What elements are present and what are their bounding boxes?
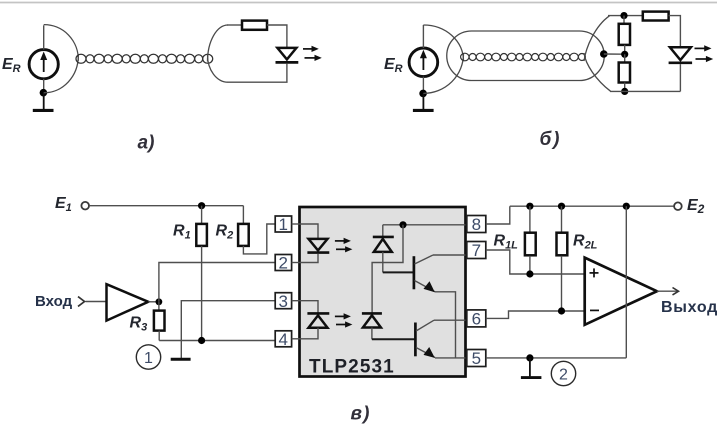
node R1L bottom dot (526, 270, 533, 277)
pin 1 (275, 215, 299, 234)
LED2 emission arrows (335, 313, 353, 327)
ground (b) (413, 93, 434, 110)
wire pin1 to LED1 (300, 224, 319, 239)
resistor R2L (557, 206, 568, 311)
pin 5 (467, 349, 486, 368)
op-amp U3 (585, 258, 657, 325)
wire to pin2 (159, 263, 275, 302)
svg-text:TLP2531: TLP2531 (309, 357, 395, 378)
wire D2 to Q2 base (372, 338, 416, 340)
LED2 (IC) reversed (307, 313, 329, 327)
pin 4 (275, 330, 299, 349)
wire D1 to Q1 base (383, 271, 414, 273)
pin 8 (467, 215, 486, 234)
resistor R2 (238, 206, 249, 246)
node bottom junction dot (b) (621, 88, 628, 95)
svg-text:в): в) (351, 404, 371, 425)
svg-text:Выход: Выход (661, 299, 717, 316)
wire lens left (a) lower (44, 56, 79, 93)
wire Q1 emitter down (435, 292, 456, 358)
wire LED2 to pin4 (300, 328, 319, 339)
node R2L bottom dot (558, 307, 565, 314)
wire lens left (a) upper (44, 25, 79, 61)
node rail-gnd dot (623, 203, 630, 210)
node buffer output junction dot (156, 298, 163, 305)
node middle junction dot (b) (621, 51, 628, 58)
terminal E1 (81, 202, 89, 210)
node B1 junction dot (419, 90, 427, 98)
pin 6 (467, 310, 486, 329)
wire pin8 to rail (486, 206, 510, 224)
LED (b) emission arrows (695, 45, 714, 62)
svg-text:1: 1 (144, 350, 153, 367)
wire pin6 internal crossing (434, 319, 466, 321)
twisted pair (b) (461, 53, 586, 61)
wire buffer out (148, 301, 159, 303)
LED1 (IC) (307, 239, 329, 253)
svg-text:Вход: Вход (35, 293, 73, 310)
svg-text:б): б) (540, 129, 562, 150)
wire pin3 to LED2 (300, 301, 319, 314)
node rail-R2L dot (558, 203, 565, 210)
wire top (a) (227, 24, 242, 26)
node pin8 junction dot (399, 221, 406, 228)
wire pin8 internal (383, 224, 466, 226)
svg-text:3: 3 (278, 292, 287, 311)
cable shield (b) (447, 31, 605, 81)
wire top rail (b) (608, 15, 643, 17)
node circle 1 (136, 345, 160, 369)
wire pin7 to plus input (486, 250, 585, 274)
wire resistor to corner (a) (267, 25, 287, 48)
wire bottom rail (b) (610, 90, 680, 92)
svg-text:4: 4 (278, 330, 287, 349)
ground 1 (171, 358, 191, 361)
buffer U1 (107, 284, 149, 320)
wire lens right (a) upper (208, 25, 229, 62)
wire source bottom (b) (422, 77, 424, 94)
node R1 bottom junction dot (198, 337, 205, 344)
wire output arrow (657, 288, 679, 295)
wire Q1 collector to pin7 (433, 254, 466, 256)
svg-text:2: 2 (278, 254, 287, 273)
IC U2 TLP2531 body (300, 207, 466, 377)
op-amp plus sign (590, 268, 599, 277)
current source ER (b) circle (409, 48, 438, 77)
node A1 junction dot (40, 89, 48, 97)
svg-text:8: 8 (472, 215, 481, 234)
wire E1 rail (89, 205, 243, 207)
ground (a) (33, 93, 54, 111)
wire lens right (b) upper (584, 16, 610, 61)
wire LED bottom (a) (228, 64, 287, 82)
node circle 2 (551, 361, 575, 385)
wire lens left (b) lower (423, 54, 463, 94)
LED (b) (669, 47, 693, 63)
wire input (86, 301, 107, 303)
resistor horizontal (b) (643, 12, 669, 21)
svg-text:2: 2 (559, 366, 568, 383)
op-amp minus sign (590, 309, 599, 311)
wire source bottom (a) (43, 79, 45, 93)
wire R2 to pin1 (243, 224, 275, 254)
wire Q2 emitter to pin5 (435, 357, 466, 359)
wire R3 to pin4 (159, 340, 275, 342)
LED (a) (276, 48, 299, 63)
wire lens right (b) lower (584, 53, 611, 91)
transistor Q1 (414, 255, 435, 292)
node top junction dot (b) (620, 12, 627, 19)
node shield junction dot (600, 50, 608, 58)
svg-text:5: 5 (472, 349, 481, 368)
pin 2 (275, 254, 299, 273)
resistor R1 (196, 206, 207, 341)
node gnd2 dot (526, 354, 533, 361)
svg-text:а): а) (138, 133, 155, 154)
input chevron (78, 297, 85, 307)
current source ER (b) arrow (420, 50, 427, 70)
transistor Q2 (415, 320, 435, 358)
LED (a) emission arrows (303, 46, 322, 61)
wire LED1 to pin2 (300, 254, 319, 263)
wire pin6 to minus input (486, 311, 585, 318)
ground 2 (521, 358, 542, 378)
wire vcc feed (372, 225, 403, 314)
wire supply through opamp (625, 206, 627, 358)
current source ER (a) arrow (40, 52, 47, 73)
resistor (a) (242, 21, 267, 30)
svg-text:1: 1 (278, 215, 287, 234)
photodiode D2 (362, 313, 382, 339)
node rail-R1L dot (526, 203, 533, 210)
svg-text:6: 6 (472, 310, 481, 329)
wire pin5 rail (486, 357, 627, 359)
wire LED bottom (b) (679, 64, 681, 91)
wire pin3 to ground1 (181, 301, 275, 358)
wire lens left (b) upper (423, 25, 463, 61)
pin 3 (275, 292, 299, 311)
terminal E2 (674, 202, 682, 210)
twisted pair (a) (76, 54, 213, 63)
wire E2 top rail (510, 205, 674, 207)
pin 7 (467, 241, 486, 260)
current source ER (a) circle (29, 50, 58, 79)
resistor divider lower (b) (619, 54, 630, 91)
resistor divider upper (b) (619, 16, 630, 55)
svg-text:7: 7 (472, 241, 481, 260)
wire source top (a) (43, 25, 45, 49)
resistor R3 (154, 302, 165, 341)
photodiode D1 (373, 225, 394, 273)
top rule (0, 2, 717, 4)
wire source top (b) (422, 25, 424, 48)
wire resistor to LED corner (b) (669, 16, 681, 48)
LED1 emission arrows (335, 238, 353, 253)
wire shield to divider (604, 53, 625, 55)
node E1-R1 junction dot (198, 202, 205, 209)
wire lens right (a) lower (208, 55, 229, 82)
resistor R1L (525, 206, 536, 274)
